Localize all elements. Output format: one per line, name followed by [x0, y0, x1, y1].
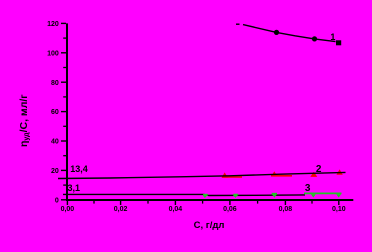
y-axis minor ticks — [63, 38, 66, 185]
svg-text:100: 100 — [47, 50, 59, 57]
svg-text:0,00: 0,00 — [61, 206, 75, 213]
curve 2 marker T1 — [222, 172, 228, 177]
curve 3 marker G1 bar — [203, 194, 208, 196]
x-axis tick labels — [61, 206, 346, 213]
svg-text:3,1: 3,1 — [68, 183, 81, 193]
svg-text:60: 60 — [51, 109, 59, 116]
x-axis line — [66, 199, 353, 201]
curve 1 line — [243, 25, 336, 42]
svg-text:C, г/дл: C, г/дл — [194, 220, 225, 231]
curve 3 marker G3 — [272, 195, 277, 198]
svg-text:120: 120 — [47, 21, 59, 28]
svg-text:0,04: 0,04 — [169, 206, 183, 213]
svg-text:13,4: 13,4 — [70, 164, 88, 174]
svg-text:3: 3 — [305, 183, 311, 194]
svg-text:0,08: 0,08 — [279, 206, 293, 213]
svg-text:20: 20 — [51, 168, 59, 175]
curve 3 line (green part) — [304, 192, 342, 194]
svg-text:0,10: 0,10 — [332, 206, 346, 213]
curve 1 marker C2 — [312, 36, 317, 41]
svg-text:1: 1 — [330, 32, 335, 42]
svg-text:0,06: 0,06 — [223, 206, 237, 213]
curve 2 marker T2 — [271, 171, 277, 176]
curve 3 marker G5 — [336, 194, 341, 197]
curve 1 end square marker — [336, 40, 341, 45]
curve 3 marker G4 — [311, 194, 316, 197]
curve 2 marker T4 — [336, 169, 342, 174]
curve 2 red tail A — [222, 176, 242, 178]
curve 3 marker G3 bar — [272, 193, 277, 195]
curve 3 marker G2 bar — [233, 194, 238, 196]
curve 2 marker T3 — [310, 172, 317, 177]
svg-text:40: 40 — [51, 139, 59, 146]
curve 2 line — [58, 172, 346, 178]
curve 1 start dash — [236, 23, 240, 25]
curve 3 marker G1 — [203, 195, 208, 198]
svg-text:2: 2 — [316, 164, 322, 175]
svg-text:0: 0 — [55, 197, 59, 204]
x-axis major ticks — [67, 201, 338, 205]
curve 1 marker C1 — [274, 30, 279, 35]
curve 3 marker G2 — [233, 195, 238, 198]
curve 2 red tail B — [271, 175, 292, 177]
y-axis line — [66, 23, 68, 200]
y-axis tick labels — [47, 21, 59, 204]
curve 3 line (black part) — [63, 194, 305, 195]
svg-text:80: 80 — [51, 80, 59, 87]
x-axis minor ticks — [94, 201, 312, 204]
svg-text:0,02: 0,02 — [114, 206, 128, 213]
y-axis major ticks — [61, 23, 66, 199]
